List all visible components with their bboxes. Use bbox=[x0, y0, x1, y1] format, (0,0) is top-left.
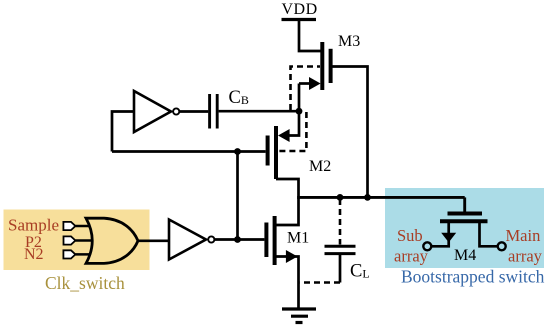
wire OR output to inverter U2 bbox=[138, 239, 169, 242]
input pin N2 bbox=[63, 250, 75, 258]
wire pin3 to gate bbox=[75, 253, 96, 256]
junction dot M3 gate branch bbox=[364, 194, 371, 201]
transistor M2 bbox=[268, 111, 299, 199]
terminal circle Main array bbox=[498, 242, 506, 250]
svg-text:M4: M4 bbox=[454, 247, 476, 264]
wire pin1 to gate bbox=[75, 225, 96, 228]
VDD supply bar bbox=[282, 18, 317, 21]
inverter U2 bbox=[169, 220, 264, 260]
wire vertical x237 bbox=[236, 152, 239, 240]
terminal circle Sub array bbox=[423, 242, 431, 250]
wire M3 gate to node B vertical bbox=[329, 67, 368, 198]
wire gate line y152 bbox=[112, 150, 266, 153]
capacitor CL bbox=[300, 199, 356, 283]
wire pin2 to gate bbox=[75, 239, 100, 242]
svg-text:Sub: Sub bbox=[397, 226, 423, 245]
svg-text:array: array bbox=[508, 247, 543, 266]
capacitor CB bbox=[210, 94, 218, 129]
junction dot x237 y152 bbox=[234, 148, 241, 155]
junction dot CL branch bbox=[337, 194, 344, 201]
svg-text:M1: M1 bbox=[287, 230, 309, 247]
input pin Sample bbox=[63, 222, 75, 230]
svg-text:N2: N2 bbox=[24, 246, 44, 263]
svg-text:Bootstrapped switch: Bootstrapped switch bbox=[401, 267, 545, 287]
node B wire y197 bbox=[299, 196, 465, 199]
wire M3 source to node A bbox=[298, 84, 301, 112]
svg-text:CL: CL bbox=[350, 262, 370, 282]
dashed bulk link M2 bbox=[279, 112, 306, 151]
node A junction dot bbox=[296, 108, 303, 115]
ground bbox=[282, 309, 316, 323]
svg-text:M2: M2 bbox=[309, 158, 331, 175]
svg-text:Sample: Sample bbox=[8, 216, 59, 235]
wire VDD to M3 drain bbox=[299, 20, 321, 52]
inverter U1 bbox=[112, 91, 208, 152]
transistor M3 bbox=[299, 42, 331, 90]
svg-text:array: array bbox=[394, 247, 429, 266]
Clk_switch highlight box bbox=[4, 210, 150, 271]
OR gate G1 bbox=[86, 218, 138, 263]
dashed bulk link M3 bbox=[291, 67, 321, 111]
svg-text:Main: Main bbox=[506, 226, 541, 245]
transistor M4 bbox=[432, 214, 498, 247]
wire CB to node A bbox=[219, 110, 299, 113]
svg-text:Clk_switch: Clk_switch bbox=[45, 273, 125, 293]
input pin P2 bbox=[64, 236, 76, 244]
junction dot x237 y239 bbox=[234, 236, 241, 243]
wire node B into switch box bbox=[463, 197, 466, 212]
svg-text:M3: M3 bbox=[338, 33, 360, 50]
svg-text:CB: CB bbox=[229, 88, 249, 108]
Bootstrapped switch highlight box bbox=[385, 188, 544, 268]
svg-text:VDD: VDD bbox=[282, 1, 318, 18]
transistor M1 bbox=[266, 196, 298, 309]
